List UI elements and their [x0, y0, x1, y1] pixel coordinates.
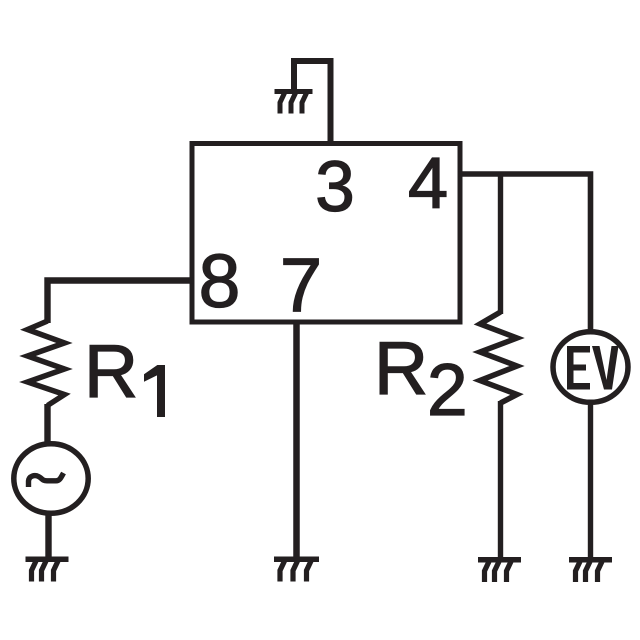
wire pin4 to EV branch — [458, 174, 591, 331]
svg-text:8: 8 — [199, 239, 241, 323]
svg-text:R: R — [84, 329, 138, 413]
voltmeter EV — [553, 332, 628, 403]
wire R2 to ground — [498, 401, 503, 558]
ground bottom-left — [26, 557, 69, 582]
AC source — [14, 444, 88, 514]
wire EV to ground — [588, 403, 593, 558]
label R1 — [84, 329, 165, 417]
svg-text:R: R — [374, 326, 428, 410]
ground top — [275, 89, 313, 114]
wire R1 to AC source — [44, 404, 50, 443]
ground bottom-center — [274, 557, 319, 582]
resistor R2 — [480, 312, 517, 403]
label R2 — [374, 326, 468, 431]
wire junction to R2 — [498, 174, 503, 314]
resistor R1 — [28, 321, 65, 406]
wire AC source to ground — [45, 514, 51, 558]
svg-text:7: 7 — [280, 243, 322, 328]
svg-text:2: 2 — [427, 350, 468, 431]
svg-text:4: 4 — [408, 144, 448, 224]
ground bottom EV — [569, 557, 612, 582]
wire pin3 to top ground — [294, 61, 331, 145]
IC box — [192, 144, 460, 323]
wire pin7 to ground — [293, 322, 300, 558]
svg-text:3: 3 — [315, 148, 355, 227]
ground bottom R2 — [478, 557, 521, 582]
wire pin8 to R1 — [48, 281, 195, 324]
